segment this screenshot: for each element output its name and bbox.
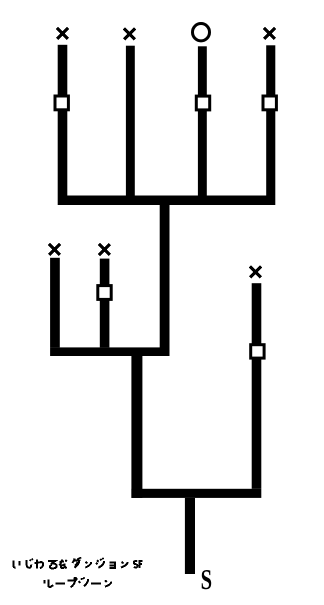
svg-text:S: S: [201, 565, 212, 596]
